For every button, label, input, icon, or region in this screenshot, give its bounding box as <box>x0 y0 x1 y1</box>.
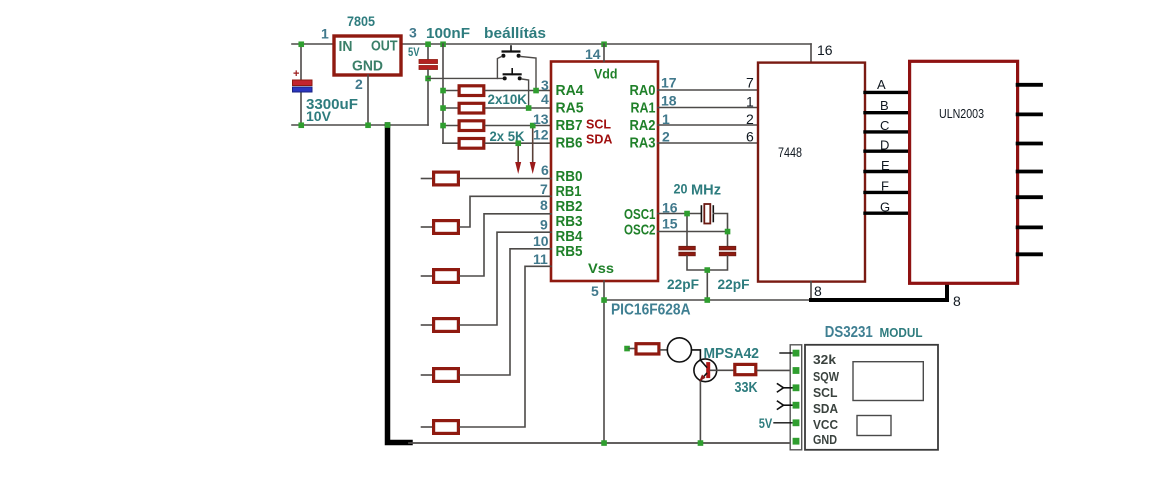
pin square GND <box>793 438 800 445</box>
svg-text:10: 10 <box>533 233 549 249</box>
svg-text:13: 13 <box>533 111 549 127</box>
wire RA3 to 7448 <box>658 142 758 144</box>
crystal X1 right plate <box>712 206 714 222</box>
DS3231 inner big rectangle <box>853 362 923 401</box>
capacitor C5 22pF top lead <box>727 232 729 247</box>
output stub 6 <box>1018 225 1041 229</box>
svg-text:SQW: SQW <box>813 369 840 384</box>
wire Vss horizontal to 7448 pin8 <box>604 299 811 301</box>
resistor R8 10K body <box>459 103 484 113</box>
svg-text:RB7: RB7 <box>556 117 583 134</box>
svg-text:OSC1: OSC1 <box>624 206 656 223</box>
svg-text:RA4: RA4 <box>556 82 585 99</box>
node junction 100nF top <box>425 41 431 47</box>
wire S1 right contact to RA4 net <box>521 57 537 91</box>
svg-text:5V: 5V <box>408 45 420 59</box>
regulator U2 7805 body <box>334 36 401 75</box>
resistor R4 body <box>434 319 459 332</box>
output stub 1 <box>1018 83 1041 87</box>
wire R2 to RB1 pin7 <box>460 196 551 227</box>
svg-text:18: 18 <box>661 93 677 109</box>
DS3231 inner small rectangle <box>857 416 891 436</box>
svg-text:Vss: Vss <box>588 260 614 276</box>
resistor R11 base stub <box>629 348 634 350</box>
wire 7448 pin8 down <box>810 282 812 300</box>
output stub 4 <box>1018 170 1041 174</box>
SECTION: crystal <box>601 182 811 303</box>
svg-text:OSC2: OSC2 <box>624 222 656 239</box>
lamp L1 circle <box>667 338 691 362</box>
resistor R6 left stub <box>422 426 433 428</box>
ground rail bottom <box>409 442 792 444</box>
svg-text:5: 5 <box>591 283 599 299</box>
transistor Q1 base bar <box>706 362 710 378</box>
svg-text:22pF: 22pF <box>718 276 750 292</box>
wire R3 to RB2 pin8 <box>460 214 551 276</box>
wire stub to R9 <box>443 125 458 127</box>
segment wire G <box>865 211 910 214</box>
wire OSC1 pin16 <box>658 213 701 215</box>
node junction SCL net <box>530 123 536 129</box>
transistor Q1 MPSA42 circle <box>694 359 717 382</box>
resistor R5 left stub <box>422 374 433 376</box>
capacitor C1 3300uF positive lead <box>300 44 302 80</box>
svg-text:6: 6 <box>541 162 549 178</box>
wire R1 to RB0 pin6 <box>460 178 551 180</box>
wire SCL drop arrow shaft <box>532 126 534 165</box>
svg-text:SDA: SDA <box>586 133 612 147</box>
IC U4 ULN2003 body <box>910 61 1018 283</box>
SECTION: power supply <box>292 13 811 443</box>
svg-text:GND: GND <box>352 59 383 75</box>
wire stub to R10 <box>443 142 458 144</box>
svg-text:PIC16F628A: PIC16F628A <box>611 302 691 319</box>
arrow SDA into module <box>778 401 784 409</box>
output stub 7 <box>1018 252 1041 256</box>
wire 5V to VCC pin <box>774 422 792 424</box>
pushbutton S1 right contact <box>517 54 521 58</box>
wire Vdd pin14 <box>603 44 605 62</box>
svg-text:2: 2 <box>355 76 363 92</box>
node junction Vss pin5 <box>601 297 607 303</box>
svg-text:G: G <box>880 200 890 215</box>
SECTION: left resistors <box>422 172 552 433</box>
svg-text:3: 3 <box>409 25 417 41</box>
wire caps common to Vss net <box>706 270 708 300</box>
svg-text:MPSA42: MPSA42 <box>704 345 760 362</box>
resistor R12 33K body <box>735 364 756 374</box>
wire ground line to buttons <box>428 77 503 79</box>
svg-text:17: 17 <box>661 75 677 91</box>
pushbutton S2 stem <box>511 69 513 75</box>
output stub 5 <box>1018 195 1041 199</box>
SECTION: pullups and buttons <box>428 25 551 174</box>
svg-text:33K: 33K <box>735 379 758 396</box>
node junction pullup rail row3 <box>440 123 446 129</box>
node junction pullup rail row1 <box>440 88 446 94</box>
capacitor C4 22pF top lead <box>686 214 688 247</box>
pushbutton S2 right contact <box>518 76 522 80</box>
svg-text:10V: 10V <box>306 108 332 124</box>
SECTION: PIC chip <box>533 44 758 443</box>
pin square VCC <box>793 419 800 426</box>
svg-text:SCL: SCL <box>813 385 838 400</box>
wire base bar to 33K <box>710 369 733 371</box>
node junction OSC1 <box>684 211 690 217</box>
pushbutton S1 actuator bar <box>503 50 520 52</box>
resistor R2 left stub <box>422 226 433 228</box>
resistor R2 body <box>434 221 459 234</box>
resistor R11 body <box>636 344 659 354</box>
transistor Q1 emitter diagonal <box>700 374 706 381</box>
wire 7805 pin3 to 100nF node <box>402 43 428 45</box>
arrowhead SCL to DS3231 <box>530 162 536 174</box>
thick ground bus vertical <box>388 125 411 443</box>
node junction ground bus top <box>385 122 391 128</box>
capacitor C2 100nF plates <box>419 60 438 64</box>
svg-text:2: 2 <box>746 111 754 127</box>
svg-text:7805: 7805 <box>347 13 375 29</box>
svg-text:8: 8 <box>540 197 548 213</box>
node junction pullup rail row2 <box>440 105 446 111</box>
svg-text:E: E <box>881 158 890 173</box>
node junction 100nF bottom <box>425 76 431 82</box>
svg-text:IN: IN <box>339 39 353 55</box>
svg-text:RB6: RB6 <box>556 135 583 152</box>
resistor R10 5K body <box>459 139 484 149</box>
wire R6 to RB5 pin11 <box>460 266 551 427</box>
wire R4 to RB3 pin9 <box>460 232 551 325</box>
node junction caps to ground wire <box>704 297 710 303</box>
svg-text:D: D <box>880 138 889 153</box>
wire 100nF node down to ground rail <box>427 78 429 125</box>
svg-text:4: 4 <box>541 91 549 107</box>
svg-text:32k: 32k <box>813 352 837 367</box>
crystal X1 body <box>704 204 710 224</box>
svg-text:OUT: OUT <box>371 39 398 55</box>
output stub 3 <box>1018 142 1041 146</box>
svg-text:RA2: RA2 <box>630 117 656 134</box>
DS3231 module body <box>805 345 938 450</box>
resistor R4 left stub <box>422 324 433 326</box>
svg-text:20: 20 <box>674 182 688 197</box>
capacitor C1 3300uF negative lead <box>300 92 302 125</box>
node junction S2 on RA5 net <box>526 105 532 111</box>
svg-text:A: A <box>877 77 886 92</box>
IC U1 PIC16F628A body <box>551 62 658 282</box>
resistor R3 body <box>434 270 459 283</box>
svg-text:1: 1 <box>746 94 754 110</box>
svg-text:GND: GND <box>813 432 837 447</box>
svg-text:7: 7 <box>540 181 548 197</box>
pushbutton S1 left contact <box>501 54 505 58</box>
DS3231 pin header strip <box>790 345 802 450</box>
capacitor C4 bottom lead <box>687 256 707 270</box>
pin square SDA <box>793 402 800 409</box>
svg-text:16: 16 <box>817 42 833 58</box>
svg-text:RA0: RA0 <box>630 82 656 99</box>
wire 5V down to 7448 pin16 <box>810 44 812 63</box>
wire RA0 to 7448 <box>658 89 758 91</box>
svg-text:MODUL: MODUL <box>880 326 923 340</box>
capacitor C2 100nF top lead <box>427 44 429 59</box>
svg-text:VCC: VCC <box>813 417 839 432</box>
pushbutton S2 actuator bar <box>504 73 521 75</box>
SECTION: transistor and DS3231 <box>601 324 938 450</box>
node junction OSC2 <box>725 229 731 235</box>
IC U3 7448 body <box>758 63 865 282</box>
resistor R1 body <box>434 172 459 185</box>
node terminal base resistor left <box>624 346 630 352</box>
pushbutton S1 stem <box>510 46 512 52</box>
wire R8 to RA5 pin4 <box>486 107 552 109</box>
wire 7805 GND pin 2 down <box>367 75 369 125</box>
thick ground wire to ULN2003 pin8 <box>811 283 947 300</box>
wire R9 to RB7 pin13 <box>486 125 552 127</box>
SECTION: 7448 and ULN2003 <box>746 42 1041 309</box>
segment wire A <box>865 91 910 94</box>
wire 5V rail top <box>428 43 811 45</box>
wire crystal right to OSC2 node <box>713 214 727 232</box>
svg-text:22pF: 22pF <box>667 276 699 292</box>
wire Vss vertical to bottom ground rail <box>603 300 605 443</box>
svg-text:2: 2 <box>662 129 670 145</box>
svg-text:9: 9 <box>540 217 548 233</box>
stub 32k pin <box>780 352 792 354</box>
capacitor C4 22pF plates <box>679 246 696 250</box>
wire S1 left contact down to ground line <box>497 57 501 79</box>
resistor R6 body <box>434 421 459 434</box>
wire stub to R8 <box>443 107 458 109</box>
svg-text:2x10K: 2x10K <box>488 91 528 107</box>
svg-text:RB5: RB5 <box>556 243 583 260</box>
svg-text:15: 15 <box>662 216 678 232</box>
node junction input top <box>298 41 304 47</box>
wire SDA drop arrow shaft <box>517 143 519 164</box>
svg-text:8: 8 <box>814 283 822 299</box>
segment wire F <box>865 191 910 194</box>
wire S2 right contact to RA5 net <box>522 79 529 108</box>
svg-text:ULN2003: ULN2003 <box>939 106 984 121</box>
segment wire E <box>865 170 910 173</box>
node junction pullup rail top <box>440 41 446 47</box>
wire Vss pin5 down <box>603 281 605 300</box>
svg-text:DS3231: DS3231 <box>825 324 873 341</box>
wire RA1 to 7448 <box>658 107 758 109</box>
wire R5 to RB4 pin10 <box>460 249 551 375</box>
node junction SDA net <box>515 140 521 146</box>
wire emitter down to ground rail <box>699 382 701 443</box>
pin square 32k <box>793 350 800 357</box>
svg-text:12: 12 <box>533 127 549 143</box>
wire RA2 to 7448 <box>658 124 758 126</box>
wire 33K to SQW pin <box>757 369 792 371</box>
wire ground rail under regulator <box>292 124 428 126</box>
segment wire B <box>865 111 910 114</box>
resistor R5 body <box>434 369 459 382</box>
wire pullup rail vertical <box>442 44 444 143</box>
wire lamp to transistor collector <box>692 350 701 359</box>
wire input top-left to 7805 pin1 <box>292 43 333 45</box>
pin square SCL <box>793 384 800 391</box>
svg-text:5V: 5V <box>759 415 773 431</box>
wire R11 to lamp <box>660 349 667 351</box>
svg-text:SDA: SDA <box>813 401 839 416</box>
svg-text:Vdd: Vdd <box>594 66 618 82</box>
node junction C1 ground <box>298 122 304 128</box>
svg-text:RA5: RA5 <box>556 100 584 117</box>
pushbutton S2 left contact <box>503 76 507 80</box>
output stub 2 <box>1018 113 1041 117</box>
wire R7 to RA4 pin3 <box>486 90 552 92</box>
capacitor C1 3300uF plates <box>293 80 313 86</box>
segment wire C <box>865 130 910 133</box>
svg-text:F: F <box>881 179 889 194</box>
resistor R1 left stub <box>422 178 433 180</box>
pin square SQW <box>793 367 800 374</box>
arrow SCL into module <box>778 384 784 392</box>
svg-text:B: B <box>880 98 889 113</box>
svg-text:7448: 7448 <box>778 145 802 160</box>
svg-text:1: 1 <box>321 26 329 42</box>
node junction S1 on RA4 net <box>533 88 539 94</box>
svg-text:RA1: RA1 <box>631 100 656 117</box>
svg-text:beállítás: beállítás <box>484 25 546 42</box>
capacitor C5 22pF plates <box>719 246 736 250</box>
arrowhead SDA to DS3231 <box>515 162 521 174</box>
node junction Vdd top <box>601 41 607 47</box>
svg-text:RA3: RA3 <box>630 135 656 152</box>
resistor R9 5K body <box>459 121 484 131</box>
svg-text:100nF: 100nF <box>426 25 470 42</box>
svg-text:MHz: MHz <box>691 182 721 199</box>
svg-text:11: 11 <box>533 251 548 267</box>
svg-text:SCL: SCL <box>586 118 611 132</box>
node junction emitter at ground rail <box>698 440 704 446</box>
capacitor C2 100nF bottom lead <box>427 70 429 78</box>
resistor R7 10K body <box>459 86 484 96</box>
wire OSC2 pin15 <box>658 231 728 233</box>
svg-text:6: 6 <box>746 129 754 145</box>
node junction 7805 gnd <box>365 122 371 128</box>
capacitor C5 bottom lead <box>707 256 727 270</box>
node junction Vss at ground rail <box>601 440 607 446</box>
node junction caps common <box>704 267 710 273</box>
wire R10 to RB6 pin12 <box>486 142 552 144</box>
wire stub to R7 <box>443 90 458 92</box>
transistor Q1 collector diagonal <box>700 360 706 367</box>
svg-text:+: + <box>293 68 299 80</box>
svg-text:8: 8 <box>953 293 961 309</box>
resistor R3 left stub <box>422 275 433 277</box>
svg-text:7: 7 <box>746 75 754 91</box>
svg-text:C: C <box>880 118 889 133</box>
segment wire D <box>865 149 910 152</box>
transistor Q1 emitter arrowhead <box>699 375 705 382</box>
svg-text:14: 14 <box>585 46 601 62</box>
crystal X1 left plate <box>700 206 702 222</box>
